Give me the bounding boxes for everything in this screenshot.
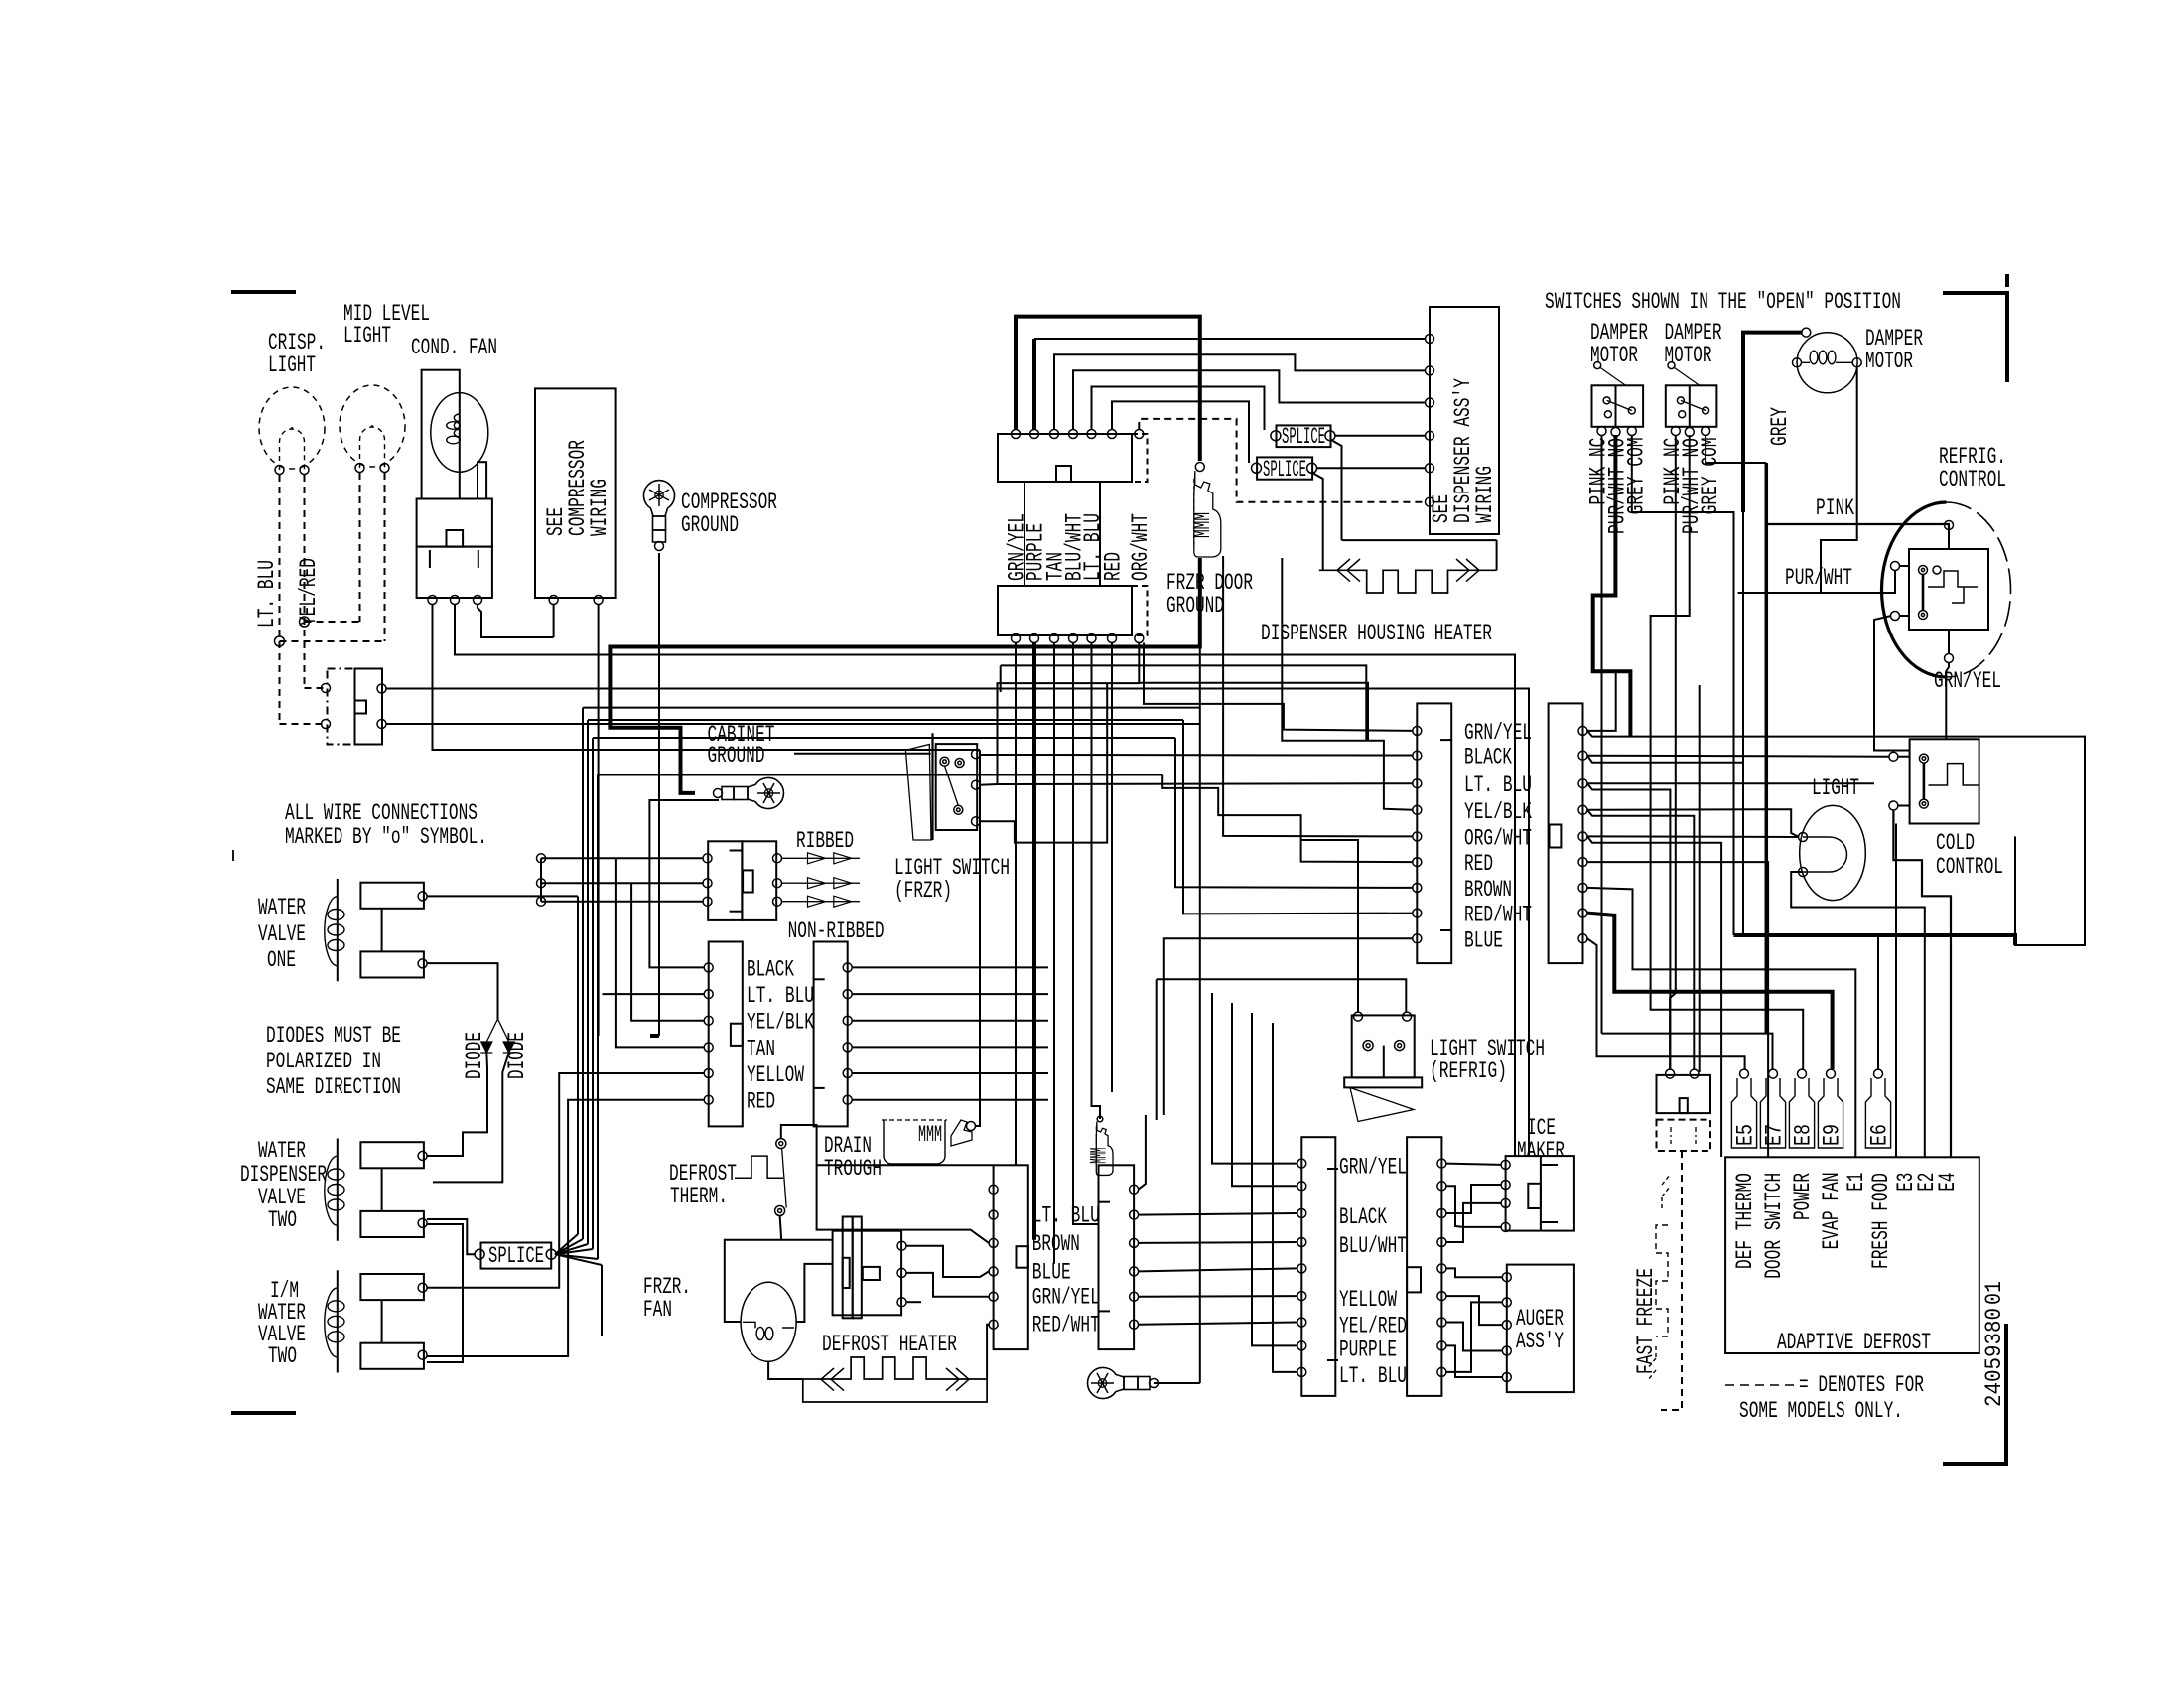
wire refrig switch pin1 up [1301, 840, 1358, 1012]
wire mesh h670 [1001, 665, 1367, 740]
svg-text:E6: E6 [1867, 1124, 1893, 1146]
damper switch 1 contact 3 [1628, 407, 1635, 414]
svg-text:BLACK: BLACK [747, 956, 794, 982]
C1 right pin 3 [843, 1016, 852, 1025]
svg-text:BLACK: BLACK [1339, 1204, 1387, 1230]
wire bundle h5 [598, 774, 1162, 776]
fast freeze arrow top [1662, 1175, 1670, 1208]
defrost heater inner notch [843, 1258, 850, 1288]
cond fan connector upper [417, 499, 492, 547]
svg-text:FRESH FOOD: FRESH FOOD [1868, 1173, 1894, 1269]
wire compressor pin1 down [553, 604, 555, 637]
svg-text:MMM: MMM [1087, 1148, 1113, 1164]
wire evap ground [1154, 1382, 1200, 1384]
connector C1 left notch [731, 1024, 743, 1046]
C2 right tick 1 [1099, 1201, 1111, 1203]
refrig switch stem [1383, 1046, 1385, 1077]
C3 left pin 2 [1297, 1182, 1306, 1191]
wire pin6 [1112, 401, 1249, 463]
refrig switch contact 2 [1395, 1041, 1405, 1051]
svg-text:(REFRIG): (REFRIG) [1430, 1058, 1507, 1084]
svg-text:RED: RED [747, 1089, 775, 1115]
bold ground bus [610, 558, 1199, 793]
C4 left pin 2 [1413, 751, 1422, 760]
wire C4 out 2a BLACK [1587, 756, 1889, 757]
refrig contact 3 [1933, 566, 1941, 574]
C4 left tick 2 [1440, 929, 1451, 931]
fast freeze arrow bottom [1648, 1346, 1656, 1380]
C1 left pin 5 [704, 1069, 713, 1078]
svg-text:(FRZR): (FRZR) [894, 878, 952, 904]
cold contact 1 inner [1922, 757, 1926, 761]
dispenser heater chevron left [1337, 559, 1360, 582]
C1 left pin 2 [704, 990, 713, 999]
wire main vertical 1208 lower [1199, 647, 1201, 1384]
wire au 5 [1446, 1302, 1502, 1372]
damper switch 1 contact 2 [1604, 411, 1611, 418]
wire splice1 out [1335, 435, 1426, 437]
cold contact 2 [1919, 799, 1928, 808]
wire au 3 [1446, 1323, 1502, 1351]
connector C3 right [1407, 1137, 1441, 1396]
frzr switch contact 1 [940, 757, 949, 766]
junction stub bold [650, 1034, 659, 1038]
connector latch a [1024, 482, 1025, 586]
switch pin left 1 [322, 684, 331, 693]
ice maker box [1506, 1156, 1574, 1231]
wire C2 r1 up [1139, 1115, 1146, 1190]
svg-text:ONE: ONE [267, 947, 296, 973]
splice 2 left terminal [1252, 463, 1262, 473]
svg-text:WATER: WATER [258, 895, 306, 920]
fast freeze meander [1656, 1225, 1668, 1336]
cold step line [1929, 764, 1979, 785]
compressor ground lug [644, 481, 675, 551]
switch pin right 2 [377, 720, 386, 729]
wire bundle v2 [582, 708, 584, 1239]
defrost therm terminal 2 [775, 1206, 785, 1216]
wire C1 right 4 [852, 1046, 1048, 1048]
terminal E6 pin [1874, 1069, 1883, 1078]
wire im valve bottom [427, 1100, 704, 1356]
C2 right pin 5 [1130, 1292, 1139, 1301]
water valve one plug upper [360, 883, 424, 909]
wire splice1 branch down [1331, 440, 1342, 540]
svg-text:RED/WHT: RED/WHT [1464, 903, 1532, 928]
terminal E9 pin [1827, 1069, 1836, 1078]
wire ribbed left 2 [541, 882, 703, 884]
C2 left pin 4 [989, 1267, 998, 1276]
freezer harness connector lower [998, 586, 1132, 635]
i/m water valve two plug lower [360, 1343, 424, 1369]
wire defrost heater element up [987, 1325, 989, 1379]
crisp light bulb [259, 387, 325, 469]
damper switch 1 arm [1607, 400, 1632, 410]
svg-text:E1: E1 [1843, 1173, 1869, 1192]
splice 2 right terminal [1307, 463, 1317, 473]
wire fc pin6 down [1111, 643, 1113, 1093]
wire dashed junction to mid-left [305, 621, 360, 623]
ribbed connector box left [708, 841, 742, 920]
cold contact 2 inner [1922, 802, 1926, 806]
C4 left pin 7 [1413, 883, 1422, 892]
svg-text:LT. BLU: LT. BLU [747, 983, 814, 1009]
drain trough terminal [967, 1122, 976, 1131]
water valve one plug link [381, 909, 383, 952]
wire C4 out 7 BROWN [1587, 888, 1855, 1157]
C4 left pin 3 [1413, 779, 1422, 788]
connector C4 left [1417, 703, 1451, 963]
C4 left pin 9 [1413, 934, 1422, 943]
light terminal 1 [1799, 833, 1808, 842]
ribbed connector notch [743, 870, 753, 892]
freezer connector top pin 1 [1012, 430, 1021, 439]
wire cold bottom to board [1895, 824, 1897, 1158]
wire grey bold [1743, 333, 1802, 512]
svg-text:PUR/WHT: PUR/WHT [1785, 565, 1852, 591]
defrost heater plate 1 [843, 1217, 853, 1319]
wire fan pin3 to compressor [478, 604, 554, 637]
dispenser assy pin 2 [1426, 366, 1434, 375]
wire compressor pin2 down [598, 604, 600, 1036]
wire frzr fan bottom [768, 1361, 803, 1379]
wire greycom bold h [1734, 935, 2016, 945]
water valve one pin top [418, 892, 427, 901]
svg-text:GRN/YEL: GRN/YEL [1464, 720, 1532, 746]
C3 right pin 4 [1437, 1238, 1446, 1247]
power connector [1657, 1075, 1711, 1113]
refrig contact 1 inner [1921, 568, 1924, 571]
defrost therm bump [735, 1156, 783, 1178]
svg-text:YEL/BLK: YEL/BLK [747, 1010, 814, 1036]
C3 right pin 3 [1437, 1209, 1446, 1218]
i/m water valve two plug upper [360, 1274, 424, 1300]
wire bundle h3 [588, 719, 1183, 721]
svg-text:GRN/YEL: GRN/YEL [1339, 1155, 1407, 1181]
freezer connector bottom pin 3 [1050, 634, 1059, 643]
svg-text:DOOR SWITCH: DOOR SWITCH [1761, 1173, 1787, 1279]
svg-text:E5: E5 [1733, 1124, 1759, 1146]
fast freeze dash-dot 2 [1695, 1127, 1697, 1144]
damper switch 1 divider [1615, 385, 1617, 427]
ribbed arrow 2.1 [782, 878, 861, 889]
defrost therm terminal 1 inner [779, 1142, 783, 1146]
refrig control terminal top [1945, 521, 1954, 530]
refrig contact 2 [1919, 611, 1928, 620]
ribbed pin left 3 [703, 897, 712, 906]
ribbed arrow 1.2 [782, 853, 861, 864]
wire C1 pin3 feed [631, 883, 704, 1020]
C3 left pin 5 [1297, 1264, 1306, 1273]
wire C1 right 5 [852, 1072, 1048, 1074]
svg-text:TWO: TWO [268, 1207, 297, 1233]
wire frzr switch pin3 [981, 683, 1108, 843]
svg-text:MMM: MMM [918, 1122, 942, 1148]
freezer connector bottom pin 6 [1108, 634, 1117, 643]
C1 right tick 2 [814, 1087, 825, 1089]
connector C2 left [994, 1165, 1028, 1349]
wire pin2 bold vertical [1032, 339, 1036, 429]
wire C1 right 6 [852, 1099, 1048, 1101]
svg-text:BLACK: BLACK [1464, 745, 1512, 771]
C4 right pin 6 [1578, 858, 1587, 867]
i/m water valve two coil petal 2 [328, 1316, 344, 1327]
ribbed tick 2 [730, 911, 743, 913]
C3 right pin 9 [1437, 1367, 1446, 1376]
wire pink bold v [1765, 463, 1769, 1034]
wire ribbed left 1 [541, 857, 703, 859]
svg-text:FAST FREEZE: FAST FREEZE [1633, 1268, 1659, 1374]
C3 left pin 6 [1297, 1292, 1306, 1301]
refrig t-left2 stub [1899, 615, 1909, 617]
page mark top-right [1943, 293, 2007, 382]
wire C2 r3 [1139, 1241, 1297, 1244]
ice maker pin 3 [1501, 1198, 1510, 1207]
frzr switch contact 3 [954, 805, 963, 814]
svg-text:ASS'Y: ASS'Y [1516, 1329, 1564, 1354]
freezer harness connector upper [998, 434, 1132, 482]
wire C4 in 7 [1175, 738, 1413, 888]
C4 left pin 4 [1413, 805, 1422, 814]
C2 left pin 3 [989, 1238, 998, 1247]
refrig switch body [1352, 1015, 1415, 1077]
wire C4 out 8 RED/WHT bold [1587, 914, 1833, 1069]
wire splice2 out [1317, 467, 1426, 469]
freezer harness connector lower dashed ext [1132, 586, 1148, 635]
i/m water valve two coil arc [325, 1288, 338, 1357]
C4 left pin 6 [1413, 858, 1422, 867]
freezer connector bottom pin 4 [1069, 634, 1078, 643]
wire C4 out 1a GRN/YEL up [1587, 671, 1616, 731]
svg-text:BLUE: BLUE [1464, 927, 1503, 953]
terminal E5 pin [1740, 1069, 1749, 1078]
wire C1 right 1 [852, 966, 1048, 968]
svg-text:MOTOR: MOTOR [1865, 349, 1913, 374]
C4 left pin 8 [1413, 909, 1422, 917]
ribbed pin left 1 [703, 854, 712, 863]
ribbed arrow 3.1 [782, 896, 861, 907]
C3 left pin 4 [1297, 1238, 1306, 1247]
refrig switch contact 1 inner [1366, 1044, 1370, 1048]
svg-text:TAN: TAN [747, 1036, 775, 1061]
svg-text:MARKED BY "o" SYMBOL.: MARKED BY "o" SYMBOL. [285, 824, 487, 850]
drain trough dashed top [882, 1119, 947, 1121]
svg-text:COLD: COLD [1936, 830, 1975, 856]
wire fan pin1 to drain trough [433, 604, 981, 750]
wire C4 in 9 [1164, 938, 1413, 1115]
i/m water valve two pin top [418, 1283, 427, 1292]
switch pin right 1 [377, 684, 386, 693]
damper coil loop 1 [1810, 351, 1818, 364]
C4 right pin 9 [1578, 934, 1587, 943]
wire C4 out 3b LT.BLU [1587, 783, 1670, 1069]
water valve one coil arc [325, 897, 338, 966]
svg-text:GROUND: GROUND [708, 743, 765, 769]
auger pin 2 [1502, 1298, 1511, 1307]
damper switch 2 pin 2 [1685, 428, 1694, 437]
C4 left pin 5 [1413, 832, 1422, 841]
connector C4 right notch [1550, 825, 1562, 848]
wire splice fan 6 [555, 1254, 602, 1265]
cold control terminal 2 [1889, 801, 1898, 810]
wire valve two bottom to splice [427, 1219, 476, 1254]
C4 right pin 7 [1578, 883, 1587, 892]
C2 right pin 2 [1130, 1210, 1139, 1219]
wire yel/red dashed [304, 475, 306, 688]
cond fan step [478, 462, 486, 498]
frzr switch pin 2 [972, 780, 981, 789]
defrost heater chevron right [946, 1368, 969, 1391]
svg-text:SPLICE: SPLICE [1282, 424, 1325, 450]
wire frzr fan left [725, 1240, 833, 1322]
refrig switch contact 2 inner [1398, 1044, 1402, 1048]
wire therm top branch [817, 1164, 994, 1166]
terminal E9 body [1818, 1078, 1843, 1148]
wire grey cont [1742, 512, 1744, 935]
refrig control ellipse left [1882, 502, 1947, 677]
dispenser assy pin 6 [1426, 497, 1434, 506]
wire fc pin3 down [1053, 643, 1055, 1264]
wire bundle v5 [597, 775, 599, 1260]
wire bundle h2 [583, 707, 1200, 709]
svg-text:MOTOR: MOTOR [1665, 343, 1712, 368]
svg-text:= DENOTES FOR: = DENOTES FOR [1799, 1372, 1924, 1398]
dispenser heater top wire [1342, 539, 1497, 541]
wire pink h [1766, 524, 1949, 529]
mid level light bulb filament dot [371, 425, 373, 427]
wire junction v 545 [540, 858, 542, 901]
svg-text:WATER: WATER [258, 1138, 306, 1164]
C1 right tick 1 [814, 978, 825, 980]
damper switch 2 contact 1 [1677, 397, 1684, 404]
defrost heater tab [863, 1267, 880, 1280]
wire cabinet ground lower lead [649, 800, 719, 967]
svg-text:GROUND: GROUND [681, 512, 739, 538]
refrig control box [1909, 549, 1988, 630]
svg-text:DEF THERMO: DEF THERMO [1732, 1173, 1758, 1269]
wire ribbed left 3 [541, 901, 703, 903]
wire pur/wht [1738, 571, 1896, 593]
C3 left pin 8 [1297, 1341, 1306, 1350]
ice maker notch [1528, 1184, 1541, 1208]
wire C1 right 3 [852, 1020, 1048, 1022]
svg-text:THERM.: THERM. [670, 1184, 728, 1209]
wire splice fan 4 [555, 1249, 593, 1254]
svg-text:SWITCHES SHOWN IN THE "OPEN" P: SWITCHES SHOWN IN THE "OPEN" POSITION [1545, 289, 1901, 315]
frzr switch pin 3 [972, 817, 981, 826]
wire splice fan 5 [555, 1254, 598, 1259]
splice box 1 [1277, 425, 1331, 447]
wire im 3 [1446, 1185, 1501, 1213]
junction ribbed 2 [537, 879, 546, 888]
adaptive defrost board [1725, 1157, 1979, 1353]
wire au 1 [1446, 1268, 1502, 1277]
mid level light bulb [340, 385, 405, 467]
splice box 2 [1257, 457, 1312, 479]
light terminal 2 [1799, 868, 1808, 877]
wire switch right1 [386, 689, 1529, 1157]
C2 right pin 3 [1130, 1238, 1139, 1247]
terminal E5 body [1731, 1078, 1756, 1148]
wire pin4 [1073, 370, 1426, 429]
frzr switch body [936, 744, 978, 830]
splice 1 right terminal [1325, 431, 1335, 441]
wire pin3 [1054, 354, 1426, 429]
C4 right pin 8 [1578, 909, 1587, 917]
svg-text:GREY: GREY [1767, 407, 1793, 446]
C2 left pin 6 [989, 1320, 998, 1329]
svg-text:GROUND: GROUND [1166, 593, 1224, 619]
wire bundle v4 [592, 738, 594, 1249]
svg-text:LIGHT: LIGHT [343, 323, 391, 349]
wire C4 in 3 [998, 643, 1414, 785]
splice right terminal [546, 1249, 556, 1259]
water dispenser valve two coil arc [325, 1156, 338, 1225]
C3 left tick 1 [1327, 1168, 1338, 1170]
defrost heater plate 2 [853, 1217, 862, 1319]
wire lt.blu dashed [279, 475, 281, 724]
C1 right pin 5 [843, 1069, 852, 1078]
wire im 1 [1446, 1164, 1501, 1165]
svg-text:RED: RED [1101, 552, 1127, 581]
svg-text:PURPLE: PURPLE [1339, 1336, 1397, 1362]
wire au 4 [1446, 1345, 1502, 1377]
wire im 4 [1446, 1203, 1501, 1242]
wire bundle v1 [577, 896, 579, 1234]
terminal E6 body [1865, 1078, 1890, 1148]
wire frzr switch left [794, 753, 931, 755]
dispenser assy pin 1 [1426, 335, 1434, 344]
wire valve two bottom to im valve [427, 1224, 463, 1362]
auger pin 5 [1502, 1373, 1511, 1382]
damper switch 1 contact 1 [1603, 397, 1610, 404]
C3 left pin 1 [1297, 1159, 1306, 1168]
svg-text:ORG/WHT: ORG/WHT [1464, 825, 1532, 851]
cond fan connector lower [417, 547, 492, 598]
ice maker pin 4 [1501, 1222, 1510, 1231]
wire C4 out 6 RED [1587, 862, 1768, 1157]
wire C4 in 4 [1282, 558, 1413, 810]
C3 right pin 6 [1437, 1292, 1446, 1301]
wire fc pin2 down bold [1032, 643, 1036, 1240]
wire C2 r5 [1139, 1295, 1297, 1298]
wire C4 out 4a YEL/BLK [1587, 809, 1799, 837]
C1 left pin 6 [704, 1095, 713, 1104]
junction yel/red [300, 617, 310, 627]
C3 right pin 7 [1437, 1318, 1446, 1327]
ribbed pin left 2 [703, 879, 712, 888]
refrig contact bar [1922, 574, 1925, 611]
svg-text:E9: E9 [1820, 1124, 1845, 1146]
evap ground lug [1088, 1368, 1159, 1399]
C4 right pin 3 [1578, 779, 1587, 788]
wire splice fan 3 [555, 1244, 588, 1254]
freezer connector top pin 2 [1030, 430, 1039, 439]
svg-text:E7: E7 [1762, 1124, 1788, 1146]
connector C1 right [814, 942, 848, 1127]
water dispenser valve two plug lower [360, 1211, 424, 1237]
wire sw1 purwht bold [1593, 435, 1631, 737]
svg-text:COND. FAN: COND. FAN [411, 335, 497, 360]
auger pin 3 [1502, 1321, 1511, 1330]
svg-text:DISPENSER HOUSING HEATER: DISPENSER HOUSING HEATER [1261, 621, 1492, 646]
crisp light bulb terminal 2 [300, 466, 309, 475]
page tick left edge [232, 850, 234, 861]
wire valve one bottom to diodes [427, 963, 498, 1019]
refrig switch pin 2 [1403, 1012, 1412, 1021]
C3 left tick 2 [1327, 1359, 1338, 1361]
cold control terminal 2 stub [1897, 805, 1910, 807]
